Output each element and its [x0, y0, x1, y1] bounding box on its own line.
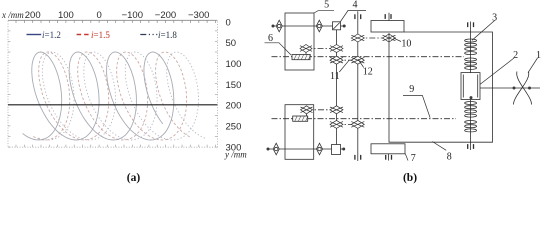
- shaft end dot left top: [272, 25, 275, 28]
- crossed helical gears 1: [513, 72, 531, 105]
- svg-text:(a): (a): [127, 172, 141, 184]
- clutch bottom: [332, 145, 341, 155]
- linkage upper box to S1: [306, 48, 337, 50]
- nut dot: [470, 96, 473, 99]
- screw bottom mount: [468, 144, 474, 149]
- screw thread g3: [465, 102, 477, 118]
- svg-text:250: 250: [226, 122, 242, 133]
- bevel pair S1 upper: [330, 45, 343, 53]
- motor mount bottom: [386, 155, 392, 160]
- slider 6: [292, 55, 311, 60]
- legend i=1.2: [27, 30, 178, 40]
- leader 12: [358, 59, 364, 67]
- hob motor housing top: [371, 21, 404, 33]
- gearbox lower housing: [285, 105, 314, 160]
- svg-text:x /mm: x /mm: [1, 10, 24, 20]
- svg-text:−200: −200: [155, 10, 176, 21]
- bevel pair S2 mid: [351, 56, 364, 64]
- S2 bottom mount: [355, 155, 361, 160]
- svg-text:100: 100: [226, 59, 242, 70]
- svg-text:−300: −300: [188, 10, 209, 21]
- bevel pair S1 mid: [330, 56, 343, 64]
- bevel pair S1 lower1: [330, 106, 343, 114]
- linkage S1 to S2 upper: [337, 59, 358, 61]
- coupling top-right: [316, 20, 322, 32]
- svg-text:9: 9: [409, 84, 414, 95]
- svg-text:1: 1: [536, 50, 541, 61]
- curve loops: [23, 52, 207, 140]
- bevel gear 10: [383, 34, 396, 42]
- x tick labels: [25, 10, 210, 21]
- svg-text:5: 5: [324, 0, 329, 11]
- linkage S2 to hob shaft: [358, 37, 389, 39]
- leader 6: [265, 43, 292, 55]
- table motor housing 7: [371, 144, 405, 154]
- leader 11: [339, 61, 348, 72]
- shaft end dot right top: [343, 25, 346, 28]
- datum line y=200mm: [8, 104, 217, 106]
- curve i=1.8 dash-dot loops: [39, 52, 207, 140]
- work spindle shaft: [480, 87, 540, 89]
- spindle dot right: [528, 87, 531, 90]
- bevel pair box lower: [301, 106, 313, 114]
- input shaft top: [273, 25, 333, 27]
- svg-text:200: 200: [226, 101, 242, 112]
- svg-text:2: 2: [513, 50, 518, 61]
- screw thread g1: [465, 39, 477, 55]
- svg-text:7: 7: [411, 153, 416, 164]
- feed axis upper: [272, 56, 465, 58]
- nut slide 2: [461, 73, 480, 100]
- bevel pair S2 upper: [351, 34, 364, 42]
- svg-text:i=1.8: i=1.8: [158, 30, 177, 40]
- svg-text:i=1.2: i=1.2: [42, 30, 61, 40]
- svg-text:6: 6: [268, 33, 273, 44]
- svg-text:11: 11: [330, 71, 340, 82]
- svg-text:10: 10: [401, 38, 411, 49]
- motor mount top: [385, 14, 391, 19]
- shaft end dot left bottom: [267, 148, 270, 151]
- svg-text:50: 50: [226, 38, 237, 49]
- screw thread g2: [465, 58, 477, 69]
- output shaft bottom: [268, 148, 332, 150]
- svg-text:−100: −100: [122, 10, 143, 21]
- svg-text:0: 0: [96, 10, 101, 21]
- coupling bottom-right: [317, 143, 323, 155]
- machine column frame: [389, 32, 493, 142]
- svg-text:0: 0: [226, 18, 231, 29]
- svg-text:y /mm: y /mm: [224, 149, 247, 159]
- svg-text:8: 8: [447, 152, 452, 163]
- clutch 4: [333, 22, 341, 30]
- svg-text:150: 150: [226, 80, 242, 91]
- curve i=1.2 solid loops: [23, 52, 174, 140]
- svg-text:i=1.5: i=1.5: [91, 30, 110, 40]
- vertical shaft S2: [357, 11, 359, 161]
- leader 10: [393, 38, 401, 42]
- S2 top mount: [355, 14, 361, 19]
- leader 4: [341, 11, 367, 22]
- top axis minor ticks: [16, 20, 215, 23]
- top axis line: [8, 19, 217, 21]
- axis frame: [8, 20, 217, 147]
- bevel pair box5: [300, 45, 312, 53]
- curve i=1.5 dashed loops: [33, 52, 191, 140]
- leader 1: [528, 58, 538, 73]
- svg-text:4: 4: [353, 0, 358, 10]
- svg-text:3: 3: [492, 12, 497, 23]
- gearbox 5 housing: [285, 13, 314, 70]
- coupling top-left: [276, 20, 282, 32]
- shaft end dot right bottom: [342, 148, 345, 151]
- screw thread g4: [465, 121, 477, 132]
- side ticks: [8, 20, 217, 147]
- leader 9: [403, 96, 430, 118]
- screw top mount: [468, 22, 474, 27]
- svg-text:(b): (b): [403, 172, 417, 184]
- linkage lower box to S1: [307, 109, 337, 111]
- leader 2: [480, 58, 514, 84]
- y tick labels: [226, 18, 242, 154]
- vertical shaft S1: [336, 30, 338, 145]
- leader 8: [432, 142, 446, 151]
- leader 3: [472, 21, 495, 41]
- bevel pair S1 lower2: [330, 120, 343, 128]
- linkage S1 to S2 lower: [337, 123, 358, 125]
- coupling bottom-left: [273, 143, 279, 155]
- svg-text:12: 12: [363, 66, 373, 77]
- leader 7: [405, 154, 408, 161]
- lead screw 3: [470, 22, 472, 151]
- svg-text:200: 200: [25, 10, 41, 21]
- slider lower: [293, 116, 308, 121]
- spindle dot left: [513, 87, 516, 90]
- svg-text:100: 100: [58, 10, 74, 21]
- bevel pair S2 lower: [351, 120, 364, 128]
- feed axis lower: [272, 118, 457, 120]
- leader 5: [314, 11, 334, 13]
